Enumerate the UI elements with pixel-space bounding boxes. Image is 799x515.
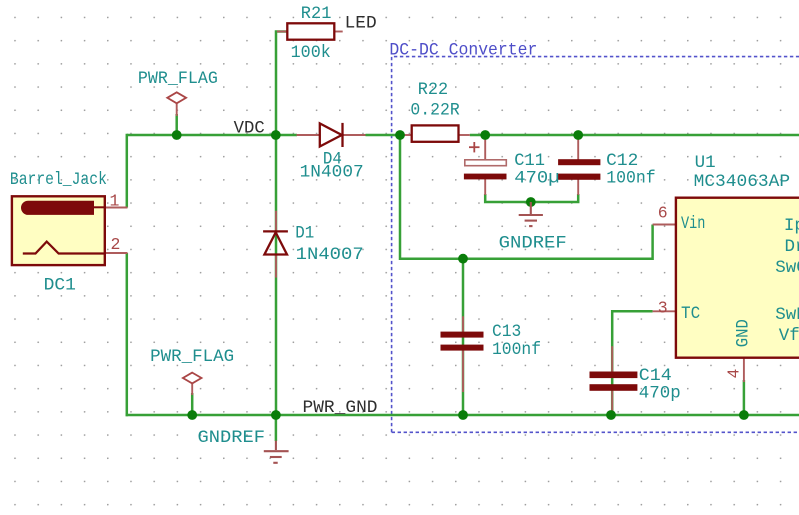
wire PWR_GND bottom rail	[126, 414, 799, 417]
svg-text:100nf: 100nf	[492, 340, 541, 360]
svg-text:DrC: DrC	[785, 237, 799, 257]
svg-text:D1: D1	[295, 224, 314, 244]
pin R22 left	[401, 134, 412, 136]
power flag PWR_FLAG top diamond	[167, 92, 186, 103]
svg-text:0.22R: 0.22R	[410, 101, 460, 121]
junction R22 left	[395, 130, 405, 140]
pin R21 right	[334, 31, 342, 33]
junction C11 top	[480, 130, 490, 140]
pin C14 top	[611, 346, 613, 371]
pin PWR_FLAG bottom stem red	[191, 383, 193, 395]
wire TC to C14	[612, 311, 652, 415]
pin D4 anode	[297, 134, 321, 136]
wire PWR_FLAG top stem	[175, 114, 178, 135]
capacitor C11 polarized	[464, 142, 507, 179]
wire U1 GND pin down	[743, 380, 746, 415]
svg-text:100nf: 100nf	[606, 169, 656, 189]
svg-text:LED: LED	[345, 14, 377, 34]
svg-text:Barrel_Jack: Barrel_Jack	[10, 170, 107, 190]
pin R21 left	[277, 31, 287, 33]
svg-text:GND: GND	[733, 319, 753, 347]
junction C13 top	[458, 254, 468, 264]
junction rail D1	[271, 410, 281, 420]
pin DC1-1	[105, 207, 128, 209]
svg-text:DC1: DC1	[44, 275, 76, 295]
diode D4	[320, 123, 343, 147]
svg-text:Vin: Vin	[681, 214, 705, 234]
svg-text:1N4007: 1N4007	[296, 245, 364, 265]
pin D1 top	[275, 211, 277, 232]
svg-text:GNDREF: GNDREF	[198, 428, 266, 448]
pin C12 bottom	[577, 180, 579, 196]
junction rail C13	[458, 410, 468, 420]
svg-text:1: 1	[110, 192, 120, 211]
junction rail PWR_FLAG	[187, 410, 197, 420]
pin stubs (red)	[105, 32, 744, 412]
connector DC1 Barrel_Jack body	[12, 196, 105, 265]
pin C14 bottom	[611, 391, 613, 411]
svg-text:R21: R21	[301, 4, 332, 24]
svg-text:470µ: 470µ	[514, 169, 559, 189]
svg-text:PWR_FLAG: PWR_FLAG	[150, 347, 234, 367]
wire PWR_FLAG bottom stem	[191, 393, 194, 415]
svg-text:R22: R22	[418, 80, 448, 100]
wire VDC rail top	[127, 134, 799, 137]
ground symbol bottom left	[264, 441, 289, 463]
pin DC1-2	[105, 252, 128, 254]
svg-text:3: 3	[658, 299, 668, 318]
pin D4 cathode	[343, 134, 366, 136]
wire C13 vertical	[462, 259, 465, 415]
wire D1 branch vertical	[275, 135, 278, 415]
svg-text:2: 2	[111, 235, 121, 254]
capacitor C12	[558, 159, 600, 180]
junction VDC at PWR_FLAG	[172, 130, 182, 140]
pin C11 top	[484, 136, 486, 160]
pin C13 top	[462, 316, 464, 332]
IC U1 MC34063AP body	[676, 198, 799, 358]
pin D1 bottom	[275, 255, 277, 278]
pin U1 TC 3	[653, 310, 676, 312]
svg-text:470p: 470p	[639, 384, 681, 404]
junction C11/C12 gnd	[526, 197, 536, 207]
svg-text:PWR_GND: PWR_GND	[303, 398, 378, 418]
svg-text:PWR_FLAG: PWR_FLAG	[138, 69, 218, 89]
capacitor C14	[590, 372, 638, 391]
svg-text:MC34063AP: MC34063AP	[694, 172, 791, 192]
resistor R21	[287, 23, 334, 39]
resistor R22	[412, 125, 459, 141]
svg-text:U1: U1	[695, 153, 716, 173]
pin PWR_FLAG top stem red	[176, 103, 178, 116]
ground symbol GNDREF middle	[519, 202, 543, 226]
wire jack pin2 down	[126, 253, 129, 416]
svg-text:100k: 100k	[291, 43, 331, 63]
wire R21 branch vertical	[276, 32, 287, 136]
pin C13 bottom	[462, 350, 464, 392]
svg-text:4: 4	[725, 369, 744, 379]
junction VDC at D1/R21	[271, 130, 281, 140]
junction rail C14	[606, 410, 616, 420]
wire left vertical to jack pin1	[126, 134, 129, 208]
pin C11 bottom	[484, 179, 486, 195]
svg-text:SwC: SwC	[775, 258, 799, 278]
power flag PWR_FLAG bottom diamond	[183, 373, 202, 384]
svg-text:GNDREF: GNDREF	[499, 234, 567, 254]
pin C12 top	[577, 136, 579, 160]
svg-text:Vfb: Vfb	[779, 326, 799, 346]
svg-text:1N4007: 1N4007	[300, 163, 364, 183]
svg-text:Ipk: Ipk	[784, 216, 799, 236]
svg-text:SwE: SwE	[775, 305, 799, 325]
svg-text:6: 6	[658, 204, 668, 223]
svg-text:TC: TC	[681, 304, 700, 324]
pin U1 Vin 6	[653, 224, 676, 226]
svg-text:VDC: VDC	[234, 119, 265, 139]
junction rail U1 GND	[739, 410, 749, 420]
wire R22 to Vin	[400, 135, 653, 259]
sheet DC-DC Converter dashed box	[392, 57, 799, 433]
capacitor C13	[441, 332, 484, 351]
junction C12 top	[573, 130, 583, 140]
wire ground stub bottom left	[275, 415, 278, 441]
pin U1 GND 4	[743, 358, 745, 383]
pin R22 right	[459, 134, 470, 136]
svg-text:DC-DC Converter: DC-DC Converter	[389, 40, 537, 60]
wire C11 C12 bottoms to gnd	[485, 194, 578, 202]
diode D1	[263, 231, 288, 254]
